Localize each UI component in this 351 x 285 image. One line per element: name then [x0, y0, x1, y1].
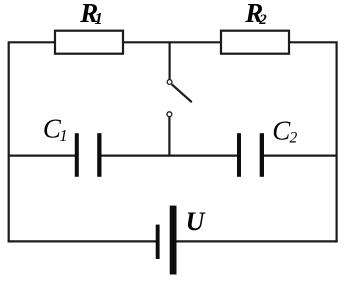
svg-text:2: 2	[290, 129, 298, 146]
svg-text:2: 2	[258, 12, 267, 28]
svg-text:1: 1	[59, 126, 67, 145]
svg-text:U: U	[186, 207, 206, 236]
svg-text:1: 1	[94, 9, 103, 28]
svg-text:C: C	[272, 116, 291, 146]
